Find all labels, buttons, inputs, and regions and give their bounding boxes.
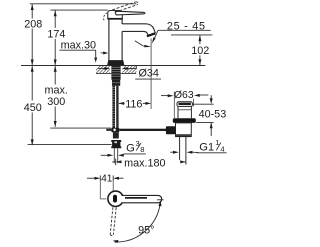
supply hose (braided) <box>112 86 115 128</box>
faucet spout <box>122 24 155 33</box>
faucet body <box>108 19 110 61</box>
dimension arrows at hose (G3/8) <box>101 154 109 156</box>
dimension 174 extension line (lever reference) <box>50 9 107 11</box>
faucet base escutcheon <box>107 60 124 65</box>
dimension 174 vertical line <box>54 10 56 28</box>
max.30 underline <box>59 49 96 51</box>
faucet cartridge cap <box>108 11 123 19</box>
svg-text:102: 102 <box>191 45 209 57</box>
lever handle top view <box>122 195 162 202</box>
svg-text:max.180: max.180 <box>124 157 165 169</box>
dimension max.300 bottom extension line <box>50 127 111 129</box>
lever tip extension tick <box>157 199 164 201</box>
svg-text:95°: 95° <box>138 224 154 236</box>
svg-text:208: 208 <box>24 18 42 30</box>
svg-text:40-53: 40-53 <box>199 109 227 121</box>
dashed lever in raised position <box>112 2 135 10</box>
G3/8 hose connector <box>111 140 121 148</box>
max.30 leader arrow to faucet body <box>101 52 105 54</box>
40-53 extension line bottom <box>196 122 213 124</box>
stream arrow from lower left <box>135 41 144 46</box>
deck surface line <box>21 65 205 67</box>
Ø63 extension line left <box>173 92 175 118</box>
95 degree swing arc <box>115 203 161 242</box>
svg-text:G1: G1 <box>199 142 214 154</box>
Ø63 extension line right <box>193 99 195 107</box>
deck section hatching <box>93 66 168 73</box>
25-45 underline <box>158 29 211 31</box>
plug stem <box>177 107 179 119</box>
hose tail below connector <box>113 148 115 163</box>
40-53 extension line top <box>193 103 214 105</box>
svg-text:8: 8 <box>140 145 144 154</box>
dimension max.180 <box>112 161 116 163</box>
dashed lever swung 95 degrees <box>110 207 113 234</box>
pull rod T-joint <box>111 128 119 133</box>
leader arrow from 25-45 to stream <box>155 30 158 38</box>
dimension arrows Ø34 <box>98 68 104 70</box>
dimension 450 vertical line <box>31 66 33 100</box>
water stream axis line <box>150 38 152 109</box>
svg-text:300: 300 <box>47 96 65 108</box>
pull rod joint nut on drain <box>166 126 176 134</box>
drain tailpipe <box>179 137 181 160</box>
svg-text:G: G <box>126 142 135 154</box>
dimension 208 extension line (top reference) <box>30 3 136 5</box>
dimension Ø63 <box>161 95 168 97</box>
svg-text:41: 41 <box>101 174 113 185</box>
mounting nut <box>112 80 120 86</box>
Ø34 underline <box>135 78 161 80</box>
max.30 leader arrow to deck <box>95 50 97 57</box>
G1 1/4 underline <box>197 152 227 154</box>
41 extension line right <box>112 181 114 191</box>
dimension arrows at tailpipe (G1 1/4) <box>170 151 173 153</box>
pull rod vertical <box>116 86 118 128</box>
hose braiding texture <box>112 86 115 88</box>
drain body <box>176 123 192 137</box>
dimension 41 <box>87 177 95 179</box>
lever slot in circle <box>113 195 117 203</box>
deck section bottom line <box>96 72 136 74</box>
svg-text:max.: max. <box>44 85 67 97</box>
dimension 102 vertical line <box>199 35 201 44</box>
svg-text:Ø63: Ø63 <box>174 90 194 101</box>
faucet body top view circle <box>108 191 123 206</box>
spout outlet aerator face <box>147 33 155 36</box>
svg-text:Ø34: Ø34 <box>138 68 158 80</box>
pull rod to drain <box>106 129 111 131</box>
drain flange Ø63 <box>173 118 196 123</box>
dimension max.300 vertical line <box>54 66 56 84</box>
dimension 208 vertical line <box>31 4 33 18</box>
dimension 40-53 <box>210 95 212 98</box>
threaded shank <box>111 66 120 80</box>
Ø34 label tick <box>135 66 137 70</box>
faucet lever handle <box>115 11 145 15</box>
hose below T-joint <box>113 132 119 138</box>
dimension 450 bottom extension line <box>28 143 112 145</box>
svg-text:4: 4 <box>220 145 224 154</box>
G3/8 underline <box>124 153 146 155</box>
dashed swing arc at back of lever <box>104 13 107 21</box>
41 extension line left (L to circle) <box>99 181 101 199</box>
dimension 116 <box>118 102 124 105</box>
pop-up plug disc <box>177 102 192 107</box>
svg-text:116: 116 <box>125 99 142 111</box>
svg-text:450: 450 <box>24 102 42 114</box>
dimension 102 top extension line <box>171 34 212 36</box>
